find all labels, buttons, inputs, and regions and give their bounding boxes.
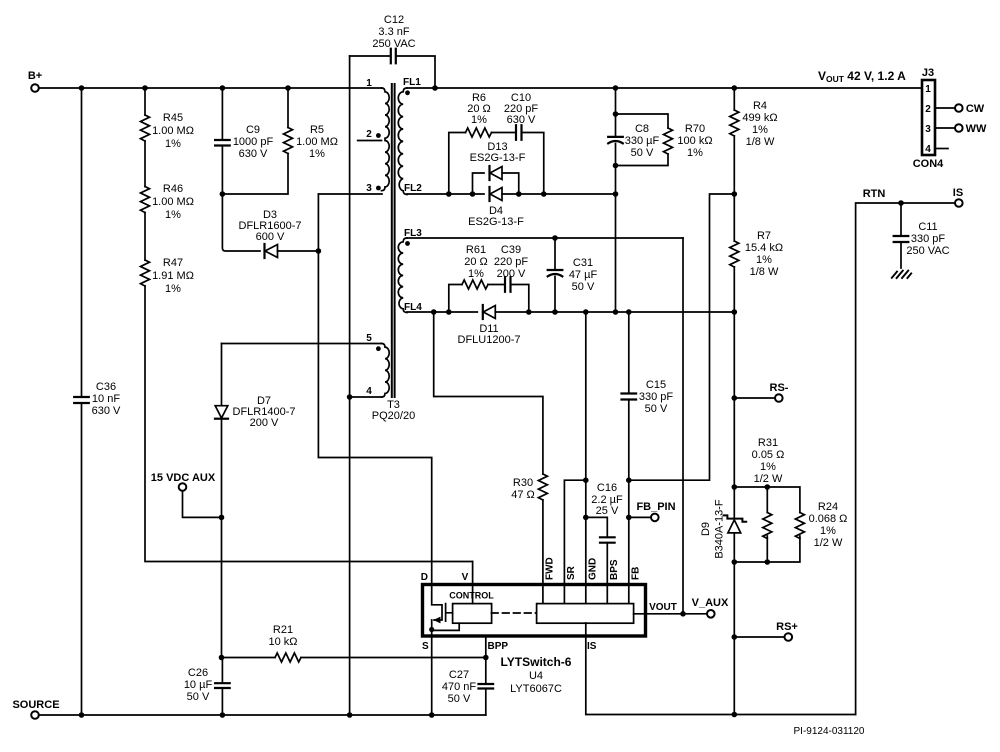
- svg-text:330 pF: 330 pF: [639, 391, 674, 403]
- svg-text:RS-: RS-: [770, 382, 789, 394]
- wire top rail right: [407, 87, 922, 89]
- svg-text:D: D: [421, 572, 428, 583]
- value label T3: [372, 399, 415, 422]
- pin label S: [422, 641, 429, 652]
- svg-text:250 VAC: 250 VAC: [906, 245, 949, 257]
- wire D13 loop: [473, 173, 519, 194]
- svg-text:LYT6067C: LYT6067C: [510, 683, 562, 695]
- wire R5 branch: [222, 88, 288, 194]
- wire 15 VDC AUX stub: [183, 491, 222, 518]
- wire FL3 to VOUT vertical: [682, 238, 684, 614]
- wire R4 R7 chain: [733, 88, 735, 715]
- transformer T3 secondary FL1-FL2: [398, 88, 407, 194]
- connector label CON4: [913, 158, 944, 170]
- svg-text:R5: R5: [310, 124, 324, 136]
- capacitor C36: [74, 397, 89, 403]
- wire FB_PIN stub: [629, 516, 651, 518]
- wire pin 2 stub: [358, 140, 382, 142]
- value label C9: [233, 124, 274, 160]
- svg-text:10 nF: 10 nF: [92, 393, 120, 405]
- wire S pin: [431, 636, 433, 715]
- svg-text:1: 1: [366, 78, 372, 89]
- node R21 left: [219, 655, 225, 661]
- svg-text:50 V: 50 V: [448, 693, 471, 705]
- svg-text:0.05 Ω: 0.05 Ω: [752, 449, 785, 461]
- svg-text:B340A-13-F: B340A-13-F: [714, 499, 726, 559]
- capacitor C31: [548, 270, 563, 276]
- svg-text:RTN: RTN: [863, 188, 886, 200]
- value label C16: [591, 482, 623, 517]
- diode D9 schottky: [724, 515, 747, 533]
- IC internal dashed link: [492, 612, 537, 614]
- node C8 loop: [613, 111, 619, 168]
- capacitor C12: [391, 49, 396, 64]
- svg-text:RS+: RS+: [776, 621, 798, 633]
- svg-text:3.3 nF: 3.3 nF: [378, 26, 409, 38]
- capacitor C8: [608, 137, 623, 143]
- svg-text:10 kΩ: 10 kΩ: [268, 636, 297, 648]
- wire top rail left: [39, 87, 382, 89]
- pin label V: [462, 572, 469, 583]
- terminal IS: [955, 199, 963, 207]
- value label C27: [442, 669, 477, 705]
- capacitor C11: [894, 236, 909, 242]
- resistor R45: [141, 115, 150, 141]
- node label WW: [966, 123, 987, 135]
- node IS rail: [732, 712, 738, 718]
- resistor R6: [466, 128, 492, 137]
- node BPP junction: [483, 655, 489, 661]
- value label C11: [906, 221, 949, 257]
- capacitor C9: [215, 140, 230, 146]
- wire R61/C39 snubber loop: [449, 285, 529, 313]
- svg-text:PQ20/20: PQ20/20: [372, 410, 415, 422]
- svg-text:J3: J3: [922, 67, 934, 79]
- svg-text:1.91 MΩ: 1.91 MΩ: [152, 270, 194, 282]
- svg-text:R46: R46: [163, 183, 183, 195]
- connector J3 box: [922, 80, 935, 155]
- wire D9/R31/R24 block: [734, 487, 800, 562]
- pin number 3: [366, 183, 372, 194]
- pin label FWD rotated: [545, 557, 556, 580]
- svg-text:1/8 W: 1/8 W: [746, 136, 775, 148]
- wire C15/FB line: [628, 312, 630, 604]
- wire C12 loop top: [350, 56, 435, 88]
- wire pin 4: [350, 396, 382, 398]
- svg-text:50 V: 50 V: [572, 281, 595, 293]
- svg-text:R61: R61: [466, 244, 486, 256]
- pin label BPS rotated: [609, 559, 620, 580]
- node phase dot FL3: [405, 241, 410, 246]
- value label C31: [569, 257, 598, 293]
- resistor R46: [141, 187, 150, 213]
- svg-text:499 kΩ: 499 kΩ: [742, 112, 777, 124]
- svg-text:D9: D9: [700, 522, 712, 536]
- node R4/R7 divider: [732, 191, 738, 197]
- svg-text:50 V: 50 V: [187, 691, 210, 703]
- svg-text:1%: 1%: [471, 114, 487, 126]
- wire FL3 rail: [407, 237, 683, 239]
- svg-text:SOURCE: SOURCE: [12, 699, 59, 711]
- node FL3/C31: [552, 235, 558, 241]
- resistor R4: [730, 110, 739, 136]
- svg-text:V_AUX: V_AUX: [692, 597, 729, 609]
- node top rail junctions: [79, 85, 737, 91]
- svg-text:R4: R4: [753, 100, 767, 112]
- svg-text:47 Ω: 47 Ω: [511, 489, 535, 501]
- value label D7: [233, 395, 296, 429]
- svg-text:C15: C15: [646, 379, 666, 391]
- svg-text:ES2G-13-F: ES2G-13-F: [468, 216, 524, 228]
- svg-text:C26: C26: [188, 667, 208, 679]
- value label D3: [239, 209, 302, 243]
- node RS+: [732, 634, 738, 640]
- resistor R24: [795, 513, 804, 539]
- transistor Q1 internal MOSFET: [432, 585, 460, 637]
- wire RS- stub: [734, 397, 775, 399]
- svg-text:FL4: FL4: [404, 302, 422, 313]
- svg-text:1%: 1%: [820, 525, 836, 537]
- terminal V_AUX: [707, 610, 715, 618]
- wire VOUT pin: [634, 613, 707, 615]
- wire V pin: [472, 562, 474, 604]
- svg-text:IS: IS: [953, 187, 963, 199]
- svg-text:330 pF: 330 pF: [911, 233, 946, 245]
- svg-text:220 pF: 220 pF: [494, 256, 529, 268]
- svg-text:BPP: BPP: [488, 641, 509, 652]
- node D3/pin3: [316, 248, 322, 254]
- node RS-: [732, 395, 738, 401]
- part label LYTSwitch-6: [501, 655, 572, 695]
- svg-text:1%: 1%: [165, 283, 181, 295]
- node 15VDC AUX tee: [219, 515, 225, 521]
- pin number 2: [366, 129, 372, 140]
- wire R45-R46-R47 chain: [145, 88, 473, 562]
- capacitor C16: [600, 537, 615, 542]
- value label R7: [745, 230, 783, 278]
- svg-text:R45: R45: [163, 112, 183, 124]
- terminal CW: [955, 104, 963, 112]
- resistor R5: [284, 128, 293, 154]
- svg-text:C27: C27: [449, 669, 469, 681]
- node FL4 rail junctions: [431, 309, 737, 315]
- svg-text:0.068 Ω: 0.068 Ω: [809, 513, 848, 525]
- svg-text:4: 4: [366, 386, 372, 397]
- pin label BPP: [488, 641, 509, 652]
- svg-text:U4: U4: [529, 670, 543, 682]
- wire J3 pin3 stub: [935, 127, 955, 129]
- pin label FL4: [404, 302, 422, 313]
- wire C8 loop: [616, 114, 669, 166]
- wire FL4 rail right part: [495, 311, 734, 313]
- transformer T3 primary winding 1-3: [382, 88, 390, 191]
- resistor R70: [664, 128, 673, 154]
- svg-text:GND: GND: [588, 558, 599, 580]
- svg-text:4: 4: [925, 144, 931, 155]
- value label R70: [677, 123, 712, 159]
- wire source/C12 vertical: [349, 56, 351, 715]
- svg-text:LYTSwitch-6: LYTSwitch-6: [501, 655, 572, 669]
- svg-text:CON4: CON4: [913, 158, 944, 170]
- node label B+: [28, 70, 42, 82]
- value label C10: [504, 92, 539, 126]
- capacitor C10: [516, 125, 522, 140]
- wire C11 branch: [900, 203, 902, 268]
- node label SOURCE: [12, 699, 59, 711]
- svg-text:IS: IS: [587, 641, 597, 652]
- svg-text:1%: 1%: [165, 209, 181, 221]
- pin label FB rotated: [631, 567, 642, 580]
- value label C12: [372, 14, 415, 50]
- svg-text:C8: C8: [635, 123, 649, 135]
- svg-text:1%: 1%: [687, 147, 703, 159]
- resistor R21: [275, 653, 301, 662]
- svg-text:C11: C11: [918, 221, 937, 233]
- connector label J3: [922, 67, 934, 79]
- svg-text:630 V: 630 V: [239, 148, 268, 160]
- transformer T3 bias winding 5-4: [382, 344, 390, 398]
- transformer T3 core: [392, 84, 395, 397]
- pin label IS: [587, 641, 597, 652]
- wire pin3 to drain: [318, 194, 431, 585]
- svg-text:WW: WW: [966, 123, 987, 135]
- value label C36: [92, 381, 121, 417]
- terminal SOURCE: [31, 711, 39, 719]
- svg-text:1.00 MΩ: 1.00 MΩ: [152, 125, 194, 137]
- svg-text:330 µF: 330 µF: [625, 135, 660, 147]
- svg-text:VOUT: VOUT: [649, 602, 677, 613]
- svg-text:200 V: 200 V: [497, 268, 526, 280]
- value label R24: [809, 501, 848, 549]
- wire FL2 rail: [407, 193, 484, 195]
- terminal 15 VDC AUX: [179, 483, 187, 491]
- connector pin numbers J3: [925, 84, 931, 155]
- svg-text:C36: C36: [96, 381, 116, 393]
- svg-text:1%: 1%: [309, 148, 325, 160]
- svg-text:R31: R31: [758, 437, 778, 449]
- resistor R31: [763, 513, 772, 539]
- node label RTN: [863, 188, 886, 200]
- svg-text:C9: C9: [246, 124, 260, 136]
- node FB_PIN tee: [626, 515, 632, 521]
- node label 15 VDC AUX: [151, 472, 216, 484]
- node phase dot pin5: [376, 346, 381, 351]
- svg-text:FL3: FL3: [404, 228, 422, 239]
- wire J3 pin4 stub: [935, 148, 948, 150]
- svg-text:R7: R7: [757, 230, 771, 242]
- svg-text:R70: R70: [685, 123, 705, 135]
- value label D11: [458, 323, 521, 346]
- pin label D: [421, 572, 428, 583]
- doc number PI-9124-031120: [794, 726, 865, 737]
- value label R45: [152, 112, 194, 150]
- pin label FL1: [403, 77, 421, 88]
- svg-text:3: 3: [366, 183, 372, 194]
- svg-text:C39: C39: [501, 244, 521, 256]
- svg-text:100 kΩ: 100 kΩ: [677, 135, 712, 147]
- svg-text:R21: R21: [273, 624, 293, 636]
- resistor R61: [462, 280, 488, 289]
- svg-text:1: 1: [925, 84, 931, 95]
- resistor R47: [141, 260, 150, 286]
- resistor R30: [538, 474, 547, 500]
- svg-text:15 VDC AUX: 15 VDC AUX: [151, 472, 216, 484]
- svg-text:50 V: 50 V: [645, 403, 668, 415]
- wire C36 branch: [81, 88, 83, 715]
- pin label FL2: [404, 183, 422, 194]
- wire IS pin: [586, 623, 856, 715]
- svg-text:C12: C12: [384, 14, 404, 26]
- diode D3: [265, 244, 278, 258]
- wire pin 5: [222, 343, 383, 345]
- svg-text:1.00 MΩ: 1.00 MΩ: [296, 136, 338, 148]
- capacitor C15: [622, 394, 637, 400]
- node VOUT/V_AUX: [680, 611, 686, 617]
- node bottom rail junctions: [79, 712, 435, 718]
- wire D3 to pin3 node: [278, 250, 319, 252]
- wire GND line: [585, 312, 587, 604]
- pin number 5: [366, 333, 372, 344]
- node label V_AUX: [692, 597, 729, 609]
- value label R61: [464, 244, 488, 280]
- pin label CONTROL: [449, 591, 494, 601]
- svg-text:630 V: 630 V: [92, 405, 121, 417]
- svg-text:1%: 1%: [468, 268, 484, 280]
- value label R21: [268, 624, 297, 648]
- wire bottom rail left: [39, 714, 486, 716]
- svg-text:630 V: 630 V: [507, 114, 536, 126]
- wire C31 branch: [554, 238, 556, 312]
- svg-text:1%: 1%: [760, 461, 776, 473]
- svg-text:V: V: [462, 572, 469, 583]
- svg-text:C31: C31: [573, 257, 593, 269]
- svg-text:20 Ω: 20 Ω: [464, 256, 488, 268]
- terminal RS+: [785, 633, 793, 641]
- capacitor C39: [505, 277, 511, 292]
- capacitor C27: [479, 684, 494, 689]
- op-amp U1 IC LYTSwitch-6 body: [423, 585, 646, 637]
- node D9 block: [732, 484, 771, 565]
- svg-text:ES2G-13-F: ES2G-13-F: [470, 152, 526, 164]
- resistor R7: [730, 241, 739, 267]
- svg-text:1/2 W: 1/2 W: [814, 537, 843, 549]
- svg-text:1%: 1%: [756, 254, 772, 266]
- svg-text:470 nF: 470 nF: [442, 681, 477, 693]
- pin label FL3: [404, 228, 422, 239]
- svg-text:1/8 W: 1/8 W: [750, 266, 779, 278]
- pin label VOUT: [649, 602, 677, 613]
- wire BPP / C27 branch: [485, 636, 487, 715]
- svg-text:600 V: 600 V: [256, 231, 285, 243]
- wire FB divider link: [629, 194, 735, 480]
- value label R6: [467, 92, 491, 126]
- svg-text:FWD: FWD: [545, 557, 556, 580]
- value label C26: [184, 667, 213, 703]
- value label D4: [468, 205, 524, 228]
- diode D7: [215, 406, 228, 419]
- value label D13: [470, 141, 526, 164]
- wire FL4 rail: [407, 311, 477, 313]
- node pin4/source line: [347, 394, 353, 400]
- terminal FB_PIN: [651, 514, 659, 522]
- terminal RS-: [775, 394, 783, 402]
- node phase dot pin2: [376, 133, 381, 138]
- IC internal control block: [453, 604, 492, 624]
- svg-text:50 V: 50 V: [631, 147, 654, 159]
- svg-text:FB_PIN: FB_PIN: [636, 501, 675, 513]
- wire SR tie: [564, 480, 585, 604]
- svg-text:2: 2: [366, 129, 372, 140]
- node FB divider: [626, 477, 632, 483]
- svg-text:R24: R24: [818, 501, 838, 513]
- node RTN/C11: [898, 200, 904, 206]
- terminal B+: [31, 84, 39, 92]
- svg-text:FL1: FL1: [403, 77, 421, 88]
- wire C8/R70 branch: [615, 88, 617, 312]
- value label R46: [152, 183, 194, 221]
- ground: [892, 271, 911, 278]
- value label C8: [625, 123, 660, 159]
- capacitor C26: [215, 683, 230, 688]
- svg-text:1%: 1%: [752, 124, 768, 136]
- svg-text:R30: R30: [513, 477, 533, 489]
- svg-text:200 V: 200 V: [250, 417, 279, 429]
- node label FB_PIN: [636, 501, 675, 513]
- pin number 1: [366, 78, 372, 89]
- wire RS+ stub: [734, 636, 784, 638]
- svg-text:25 V: 25 V: [596, 505, 619, 517]
- node C9/R5 bottom: [220, 191, 226, 197]
- svg-text:1%: 1%: [165, 138, 181, 150]
- svg-text:C16: C16: [597, 482, 617, 494]
- wire FWD branch: [434, 312, 543, 604]
- svg-text:1/2 W: 1/2 W: [754, 473, 783, 485]
- node MOSFET source: [429, 627, 434, 632]
- IC internal driver block: [537, 604, 634, 624]
- svg-text:R47: R47: [163, 257, 183, 269]
- value label R31: [752, 437, 785, 485]
- svg-text:B+: B+: [28, 70, 42, 82]
- node C16 tee: [583, 515, 589, 521]
- svg-text:47 µF: 47 µF: [569, 269, 598, 281]
- svg-text:FL2: FL2: [404, 183, 422, 194]
- pin label SR rotated: [566, 565, 577, 580]
- wire RTN vertical: [856, 203, 955, 715]
- wire FL2 rail right part: [502, 193, 616, 195]
- node FL2 rail junctions: [446, 191, 618, 197]
- svg-text:3: 3: [925, 124, 931, 135]
- transformer T3 secondary FL3-FL4: [398, 238, 407, 313]
- svg-text:15.4 kΩ: 15.4 kΩ: [745, 242, 783, 254]
- diode D11: [483, 305, 496, 319]
- pin label GND rotated: [588, 558, 599, 580]
- value label C39: [494, 244, 529, 280]
- pin number 4: [366, 386, 372, 397]
- node phase dot pin3: [376, 186, 381, 191]
- svg-text:CW: CW: [966, 103, 985, 115]
- terminal WW: [955, 124, 963, 132]
- node label CW: [966, 103, 985, 115]
- svg-text:2: 2: [925, 104, 931, 115]
- node phase dot FL1: [405, 90, 410, 95]
- value label D9 rotated: [700, 499, 726, 559]
- svg-text:PI-9124-031120: PI-9124-031120: [794, 726, 865, 737]
- node label VOUT 42V: [818, 69, 906, 84]
- value label R30: [511, 477, 535, 501]
- wire R6/C10 snubber loop: [449, 133, 544, 195]
- svg-text:BPS: BPS: [609, 559, 620, 580]
- wire R21: [222, 657, 486, 659]
